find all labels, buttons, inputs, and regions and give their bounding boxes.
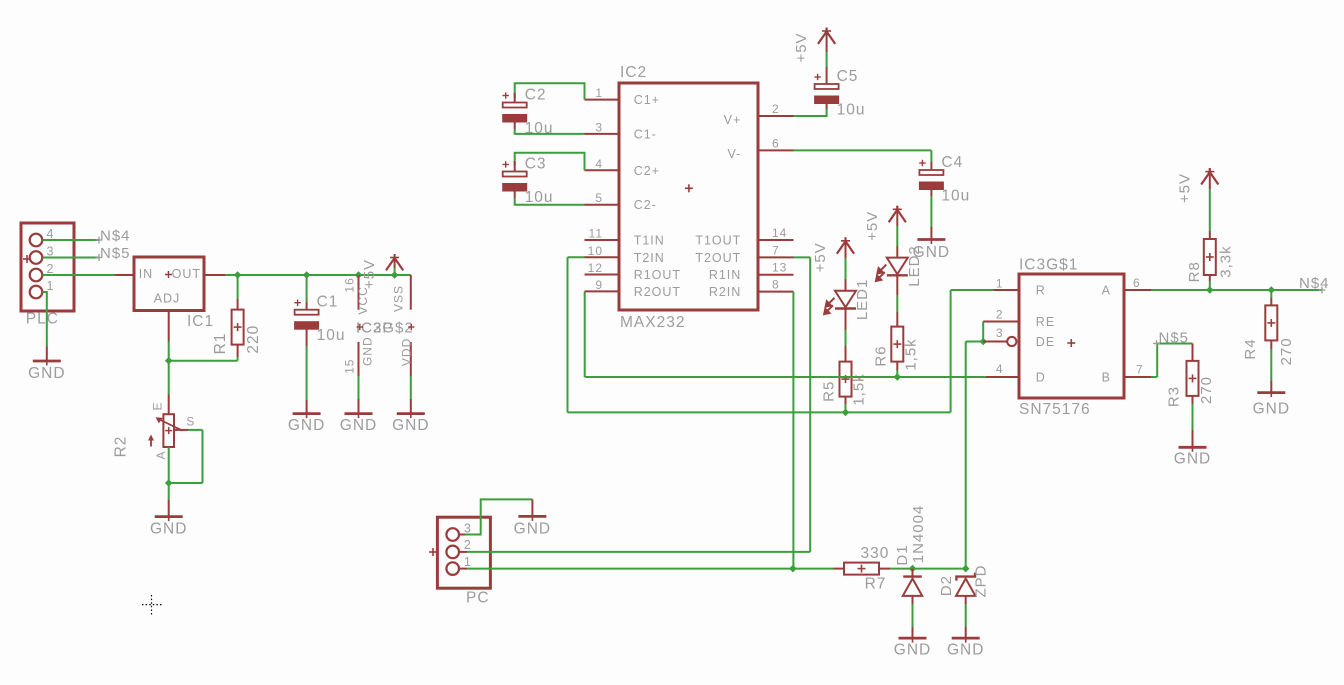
svg-text:R2OUT: R2OUT xyxy=(634,285,681,299)
svg-text:E: E xyxy=(151,401,165,410)
svg-text:7: 7 xyxy=(772,243,780,257)
svg-text:GND: GND xyxy=(1253,401,1290,418)
svg-text:1,5k: 1,5k xyxy=(850,373,867,405)
svg-text:270: 270 xyxy=(1198,376,1215,404)
svg-text:10u: 10u xyxy=(525,189,554,206)
svg-text:R1: R1 xyxy=(212,333,229,355)
svg-text:GND: GND xyxy=(361,336,375,366)
svg-text:R6: R6 xyxy=(872,345,889,366)
svg-text:10: 10 xyxy=(588,244,603,258)
svg-text:12: 12 xyxy=(588,261,603,275)
svg-text:8: 8 xyxy=(772,278,780,292)
svg-text:LED2: LED2 xyxy=(906,245,923,287)
svg-text:16: 16 xyxy=(343,277,357,292)
svg-text:6: 6 xyxy=(772,136,780,150)
svg-text:1: 1 xyxy=(47,279,55,293)
svg-text:R8: R8 xyxy=(1186,261,1203,282)
svg-text:4: 4 xyxy=(47,227,55,241)
svg-text:GND: GND xyxy=(288,417,325,434)
svg-text:D2: D2 xyxy=(938,575,955,596)
svg-text:C2-: C2- xyxy=(634,198,657,212)
svg-text:PLC: PLC xyxy=(26,311,59,328)
svg-text:2: 2 xyxy=(996,308,1004,322)
svg-text:+5V: +5V xyxy=(793,32,810,62)
svg-text:C2: C2 xyxy=(525,87,547,104)
svg-text:OUT: OUT xyxy=(172,267,201,281)
svg-text:SN75176: SN75176 xyxy=(1019,401,1091,418)
svg-text:T1OUT: T1OUT xyxy=(695,234,741,248)
svg-text:R4: R4 xyxy=(1242,338,1259,359)
svg-text:V+: V+ xyxy=(724,113,742,127)
svg-text:R1OUT: R1OUT xyxy=(634,268,681,282)
svg-text:11: 11 xyxy=(589,227,603,241)
svg-text:270: 270 xyxy=(1278,337,1295,365)
svg-text:T1IN: T1IN xyxy=(634,234,665,248)
svg-text:C1-: C1- xyxy=(634,127,657,141)
svg-text:4: 4 xyxy=(595,157,603,171)
svg-text:+5V: +5V xyxy=(1176,173,1193,203)
svg-text:ZPD: ZPD xyxy=(972,565,989,598)
svg-text:T2OUT: T2OUT xyxy=(695,251,741,265)
svg-text:ADJ: ADJ xyxy=(154,292,181,306)
svg-text:13: 13 xyxy=(772,261,787,275)
svg-text:RE: RE xyxy=(1036,315,1055,329)
svg-text:N$4: N$4 xyxy=(100,228,131,245)
svg-text:14: 14 xyxy=(772,226,787,240)
svg-text:GND: GND xyxy=(947,642,984,659)
svg-text:R3: R3 xyxy=(1165,386,1182,407)
svg-text:R1IN: R1IN xyxy=(709,268,741,282)
svg-text:R2: R2 xyxy=(113,436,130,458)
svg-text:+5V: +5V xyxy=(361,259,378,289)
svg-text:IN: IN xyxy=(139,267,154,281)
svg-text:+5V: +5V xyxy=(812,242,829,272)
svg-text:3,3k: 3,3k xyxy=(1218,245,1235,277)
svg-text:3: 3 xyxy=(996,326,1004,340)
svg-text:DE: DE xyxy=(1036,335,1055,349)
svg-text:V-: V- xyxy=(727,147,741,161)
svg-text:C1: C1 xyxy=(317,294,339,311)
svg-text:N$5: N$5 xyxy=(1159,330,1190,347)
svg-text:330: 330 xyxy=(860,545,889,562)
svg-text:IC1: IC1 xyxy=(187,313,214,330)
svg-text:R7: R7 xyxy=(865,576,887,593)
svg-text:C5: C5 xyxy=(837,68,859,85)
svg-text:1: 1 xyxy=(595,86,603,100)
svg-text:6: 6 xyxy=(1133,276,1141,290)
svg-text:9: 9 xyxy=(595,278,603,292)
svg-text:4: 4 xyxy=(996,362,1004,376)
svg-text:1: 1 xyxy=(996,277,1004,291)
svg-text:IC3G$2: IC3G$2 xyxy=(356,320,414,337)
svg-text:C2+: C2+ xyxy=(634,164,660,178)
svg-text:15: 15 xyxy=(343,359,357,374)
svg-text:1N4004: 1N4004 xyxy=(910,505,927,564)
svg-text:LED1: LED1 xyxy=(854,279,871,321)
svg-text:10u: 10u xyxy=(317,327,346,344)
svg-text:10u: 10u xyxy=(941,188,970,205)
svg-text:3: 3 xyxy=(47,245,55,259)
svg-text:1,5k: 1,5k xyxy=(902,338,919,370)
svg-text:PC: PC xyxy=(466,590,490,607)
svg-text:GND: GND xyxy=(340,417,377,434)
svg-text:A: A xyxy=(1102,284,1111,298)
svg-text:D: D xyxy=(1036,371,1046,385)
svg-text:D1: D1 xyxy=(894,544,911,565)
svg-text:B: B xyxy=(1102,371,1111,385)
svg-text:1: 1 xyxy=(464,555,472,569)
svg-text:R5: R5 xyxy=(821,381,838,402)
svg-text:5: 5 xyxy=(595,191,603,205)
svg-text:C1+: C1+ xyxy=(634,93,660,107)
svg-text:+5V: +5V xyxy=(864,211,881,241)
svg-text:2: 2 xyxy=(464,538,472,552)
svg-text:3: 3 xyxy=(464,522,472,536)
svg-text:220: 220 xyxy=(245,325,262,354)
svg-text:IC2: IC2 xyxy=(620,64,647,81)
svg-text:2: 2 xyxy=(47,262,55,276)
svg-text:GND: GND xyxy=(150,521,187,538)
svg-text:A: A xyxy=(154,450,168,459)
svg-text:N$5: N$5 xyxy=(100,245,131,262)
svg-text:MAX232: MAX232 xyxy=(620,314,685,331)
svg-text:GND: GND xyxy=(1174,451,1211,468)
svg-text:N$4: N$4 xyxy=(1299,275,1330,292)
svg-text:GND: GND xyxy=(514,521,551,538)
svg-text:S: S xyxy=(186,415,195,429)
svg-text:GND: GND xyxy=(392,417,429,434)
svg-text:C4: C4 xyxy=(941,154,963,171)
svg-text:R2IN: R2IN xyxy=(709,285,741,299)
svg-text:T2IN: T2IN xyxy=(634,251,665,265)
svg-text:IC3G$1: IC3G$1 xyxy=(1019,257,1078,274)
svg-text:GND: GND xyxy=(28,365,65,382)
svg-text:VCC: VCC xyxy=(356,286,370,314)
svg-text:VSS: VSS xyxy=(392,285,406,312)
svg-text:GND: GND xyxy=(894,642,931,659)
svg-text:7: 7 xyxy=(1136,363,1144,377)
svg-text:R: R xyxy=(1036,284,1046,298)
svg-text:VDD: VDD xyxy=(400,338,414,366)
svg-text:C3: C3 xyxy=(525,156,547,173)
svg-text:2: 2 xyxy=(772,102,780,116)
svg-text:10u: 10u xyxy=(837,102,866,119)
svg-text:3: 3 xyxy=(595,120,603,134)
